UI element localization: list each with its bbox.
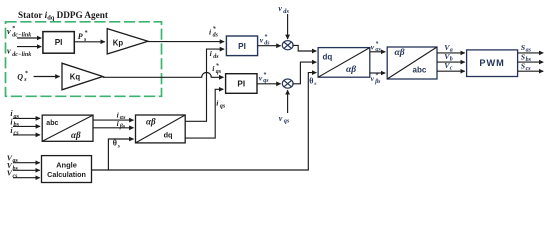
svg-text:qs: qs bbox=[284, 118, 290, 125]
svg-text:Q: Q bbox=[17, 72, 23, 81]
node Sbs label bbox=[521, 52, 532, 63]
svg-text:ds: ds bbox=[264, 40, 270, 46]
svg-text:*: * bbox=[375, 72, 378, 79]
node Vcs label bbox=[7, 169, 18, 180]
wire PI2 out vqs* bbox=[257, 83, 281, 85]
wire X1 to dq block bbox=[292, 45, 316, 51]
node v*beta-s label bbox=[371, 72, 382, 85]
svg-text:PI: PI bbox=[55, 38, 63, 47]
PI block (agent) bbox=[43, 32, 74, 54]
node i-alpha-s label bbox=[117, 110, 127, 121]
transform alpha-beta to dq (currents) bbox=[136, 115, 186, 143]
svg-text:c: c bbox=[450, 66, 453, 72]
summing junction X2 bbox=[282, 79, 293, 88]
svg-text:as: as bbox=[526, 48, 532, 54]
wire ias bbox=[13, 117, 40, 119]
svg-text:dq: dq bbox=[164, 131, 173, 140]
PWM block bbox=[467, 50, 518, 77]
svg-text:dc−link: dc−link bbox=[12, 32, 31, 38]
node Vc label bbox=[444, 61, 453, 72]
wire Sbs out bbox=[518, 61, 544, 63]
transform dq to alpha-beta bbox=[318, 48, 370, 78]
svg-text:abc: abc bbox=[413, 66, 427, 75]
svg-text:v: v bbox=[260, 36, 264, 45]
wire Qs* to Kq bbox=[34, 76, 60, 78]
wire Kq out to PI2 (i*qs) with hop over ids line bbox=[103, 73, 224, 78]
node Qs* label bbox=[17, 70, 28, 83]
svg-text:θ: θ bbox=[309, 76, 313, 85]
node vds label bbox=[278, 4, 289, 15]
node iqs label bbox=[216, 99, 226, 110]
svg-text:Stator idq DDPG Agent: Stator idq DDPG Agent bbox=[18, 10, 109, 22]
node i*qs label bbox=[212, 62, 222, 75]
wire iqs into PI2 bbox=[185, 89, 223, 138]
svg-text:v: v bbox=[259, 73, 263, 82]
node v*alpha-s label bbox=[371, 40, 382, 53]
wire v*alpha to abc block bbox=[370, 51, 385, 53]
svg-text:αβ: αβ bbox=[71, 130, 81, 140]
node Vb label bbox=[444, 52, 453, 63]
svg-text:βs: βs bbox=[374, 79, 381, 85]
svg-text:PWM: PWM bbox=[479, 58, 504, 68]
svg-text:cs: cs bbox=[13, 173, 19, 179]
node v*dc-link label bbox=[7, 25, 31, 39]
svg-text:P: P bbox=[78, 32, 83, 41]
wire Vb bbox=[437, 61, 465, 63]
node Vas label bbox=[7, 153, 19, 164]
node ids label bbox=[210, 49, 220, 60]
svg-text:αβ: αβ bbox=[395, 48, 405, 58]
wire ids into PI1 bbox=[185, 49, 224, 121]
wire vdc* to PI bbox=[17, 37, 41, 39]
wire ics bbox=[13, 134, 40, 136]
wire Scs out bbox=[518, 70, 544, 72]
wire i-beta bbox=[93, 127, 134, 129]
wire Vc bbox=[437, 70, 465, 72]
node Ps* label bbox=[78, 30, 89, 43]
wire Vcs bbox=[13, 177, 40, 179]
svg-text:bs: bs bbox=[13, 166, 19, 172]
svg-text:PI: PI bbox=[238, 42, 246, 51]
svg-text:qs: qs bbox=[216, 69, 222, 75]
wire theta_s bus from angle calc bbox=[92, 73, 317, 170]
node vqs* label bbox=[259, 71, 270, 84]
wire ibs bbox=[13, 125, 40, 127]
transform alpha-beta to abc bbox=[387, 47, 437, 79]
wire Vbs bbox=[13, 169, 40, 171]
svg-text:a: a bbox=[450, 48, 453, 54]
svg-text:αs: αs bbox=[120, 115, 126, 121]
svg-text:βs: βs bbox=[119, 124, 126, 130]
wire theta_s into alpha-beta/dq bbox=[108, 139, 133, 170]
wire PI1 out vds* bbox=[258, 45, 281, 47]
node ibs label bbox=[10, 117, 19, 128]
svg-text:Kq: Kq bbox=[70, 73, 81, 82]
gain Kq bbox=[62, 63, 103, 90]
node theta_s label (dq) bbox=[309, 76, 317, 87]
svg-text:v: v bbox=[278, 4, 282, 13]
node Sas label bbox=[521, 43, 532, 54]
wire Kp out to PI1 (i*ds) bbox=[148, 41, 224, 43]
node Vbs label bbox=[7, 161, 19, 172]
svg-text:abc: abc bbox=[46, 120, 58, 127]
svg-text:v: v bbox=[7, 27, 11, 36]
svg-text:bs: bs bbox=[526, 57, 532, 63]
node vds* label bbox=[260, 34, 271, 47]
wire Va bbox=[437, 52, 465, 54]
svg-text:b: b bbox=[450, 57, 453, 63]
svg-text:ds: ds bbox=[213, 32, 219, 38]
svg-text:PI: PI bbox=[237, 80, 245, 89]
node theta_s label (abdq) bbox=[113, 139, 121, 150]
wire Sas out bbox=[518, 52, 544, 54]
gain Kp bbox=[107, 29, 148, 54]
svg-text:αs: αs bbox=[375, 47, 381, 53]
svg-text:Angle: Angle bbox=[56, 161, 77, 170]
svg-text:Kp: Kp bbox=[113, 38, 124, 47]
node Va label bbox=[444, 43, 453, 54]
wire v*beta to abc block bbox=[370, 72, 385, 74]
node Scs label bbox=[521, 62, 531, 73]
svg-text:cs: cs bbox=[526, 66, 532, 72]
block Angle Calculation bbox=[42, 156, 92, 183]
node vqs label bbox=[279, 114, 290, 125]
wire i-alpha bbox=[93, 119, 134, 121]
svg-text:ds: ds bbox=[213, 54, 219, 60]
PI1 block bbox=[226, 36, 257, 56]
wire vds into X1 bbox=[287, 14, 289, 39]
svg-text:v: v bbox=[7, 47, 11, 56]
svg-text:v: v bbox=[279, 114, 283, 123]
wire vqs into X2 bbox=[287, 90, 289, 113]
wire vdc to PI bbox=[17, 46, 41, 48]
svg-text:ds: ds bbox=[283, 8, 289, 15]
svg-text:dq: dq bbox=[323, 52, 333, 61]
transform abc to alpha-beta (currents) bbox=[42, 115, 93, 141]
svg-text:θ: θ bbox=[113, 139, 117, 148]
node i*ds label bbox=[209, 26, 219, 39]
svg-text:qs: qs bbox=[220, 103, 226, 109]
svg-text:αβ: αβ bbox=[146, 117, 156, 127]
svg-text:qs: qs bbox=[263, 78, 269, 84]
svg-text:Calculation: Calculation bbox=[47, 170, 86, 179]
summing junction X1 bbox=[282, 41, 293, 50]
svg-text:dc−link: dc−link bbox=[12, 52, 31, 58]
node i-beta-s label bbox=[117, 119, 126, 130]
wire Vas bbox=[13, 162, 40, 164]
node vdc-link label bbox=[7, 47, 31, 58]
PI2 block bbox=[226, 74, 257, 94]
wire X2 to dq block bbox=[292, 62, 316, 84]
wire Ps* bbox=[74, 41, 105, 43]
node ias label bbox=[10, 109, 19, 120]
svg-text:αβ: αβ bbox=[346, 65, 356, 75]
node ics label bbox=[10, 126, 19, 137]
DDPG agent dashed box bbox=[6, 22, 162, 97]
